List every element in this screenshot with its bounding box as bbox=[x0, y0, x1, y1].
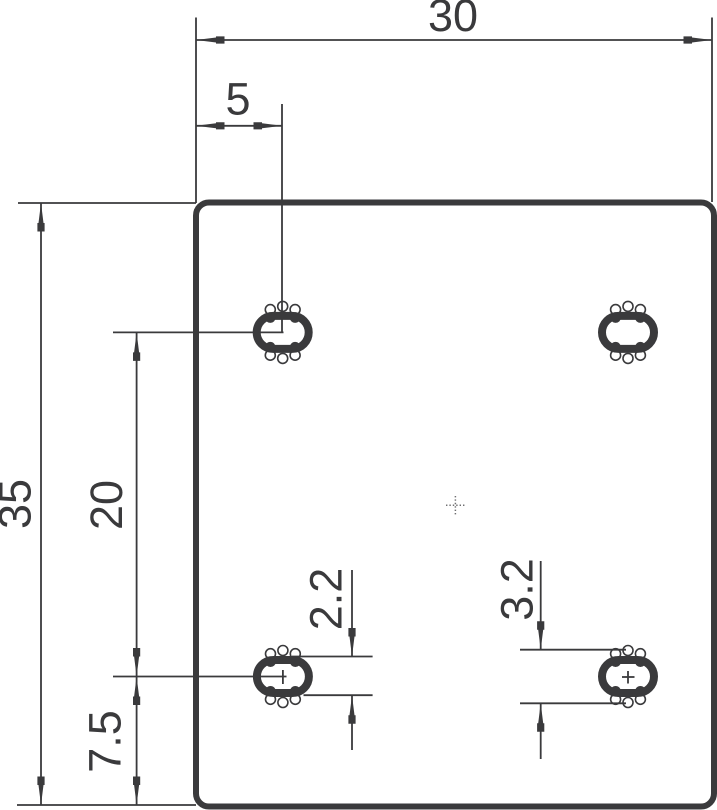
svg-text:7.5: 7.5 bbox=[80, 710, 131, 773]
slot hole top-left bbox=[257, 301, 309, 363]
svg-text:30: 30 bbox=[428, 0, 478, 41]
dimension 7.5 (bottom slot offset) bbox=[80, 677, 141, 806]
svg-text:35: 35 bbox=[0, 479, 41, 529]
dimension 35 (left height) bbox=[0, 203, 196, 805]
plate outline bbox=[196, 203, 714, 807]
dimension 5 (slot offset from left edge) bbox=[196, 74, 282, 333]
dimension 2.2 (slot channel height, bottom-left) bbox=[292, 568, 373, 750]
center mark slot bottom-left bbox=[282, 670, 284, 684]
slot hole top-right bbox=[602, 301, 654, 363]
slot hole bottom-left bbox=[257, 646, 309, 708]
svg-text:3.2: 3.2 bbox=[492, 558, 543, 621]
dimension 3.2 (thread crest spacing, bottom-right) bbox=[492, 558, 627, 759]
center mark slot bottom-right bbox=[622, 671, 635, 684]
svg-text:20: 20 bbox=[81, 480, 132, 530]
slot hole bottom-right bbox=[602, 646, 654, 708]
dimension 20 (slot center spacing) bbox=[81, 332, 287, 676]
svg-text:5: 5 bbox=[225, 74, 250, 125]
svg-text:2.2: 2.2 bbox=[301, 568, 352, 631]
center mark plate (dotted cross) bbox=[446, 496, 466, 515]
dimension 30 (top width) bbox=[196, 0, 712, 203]
